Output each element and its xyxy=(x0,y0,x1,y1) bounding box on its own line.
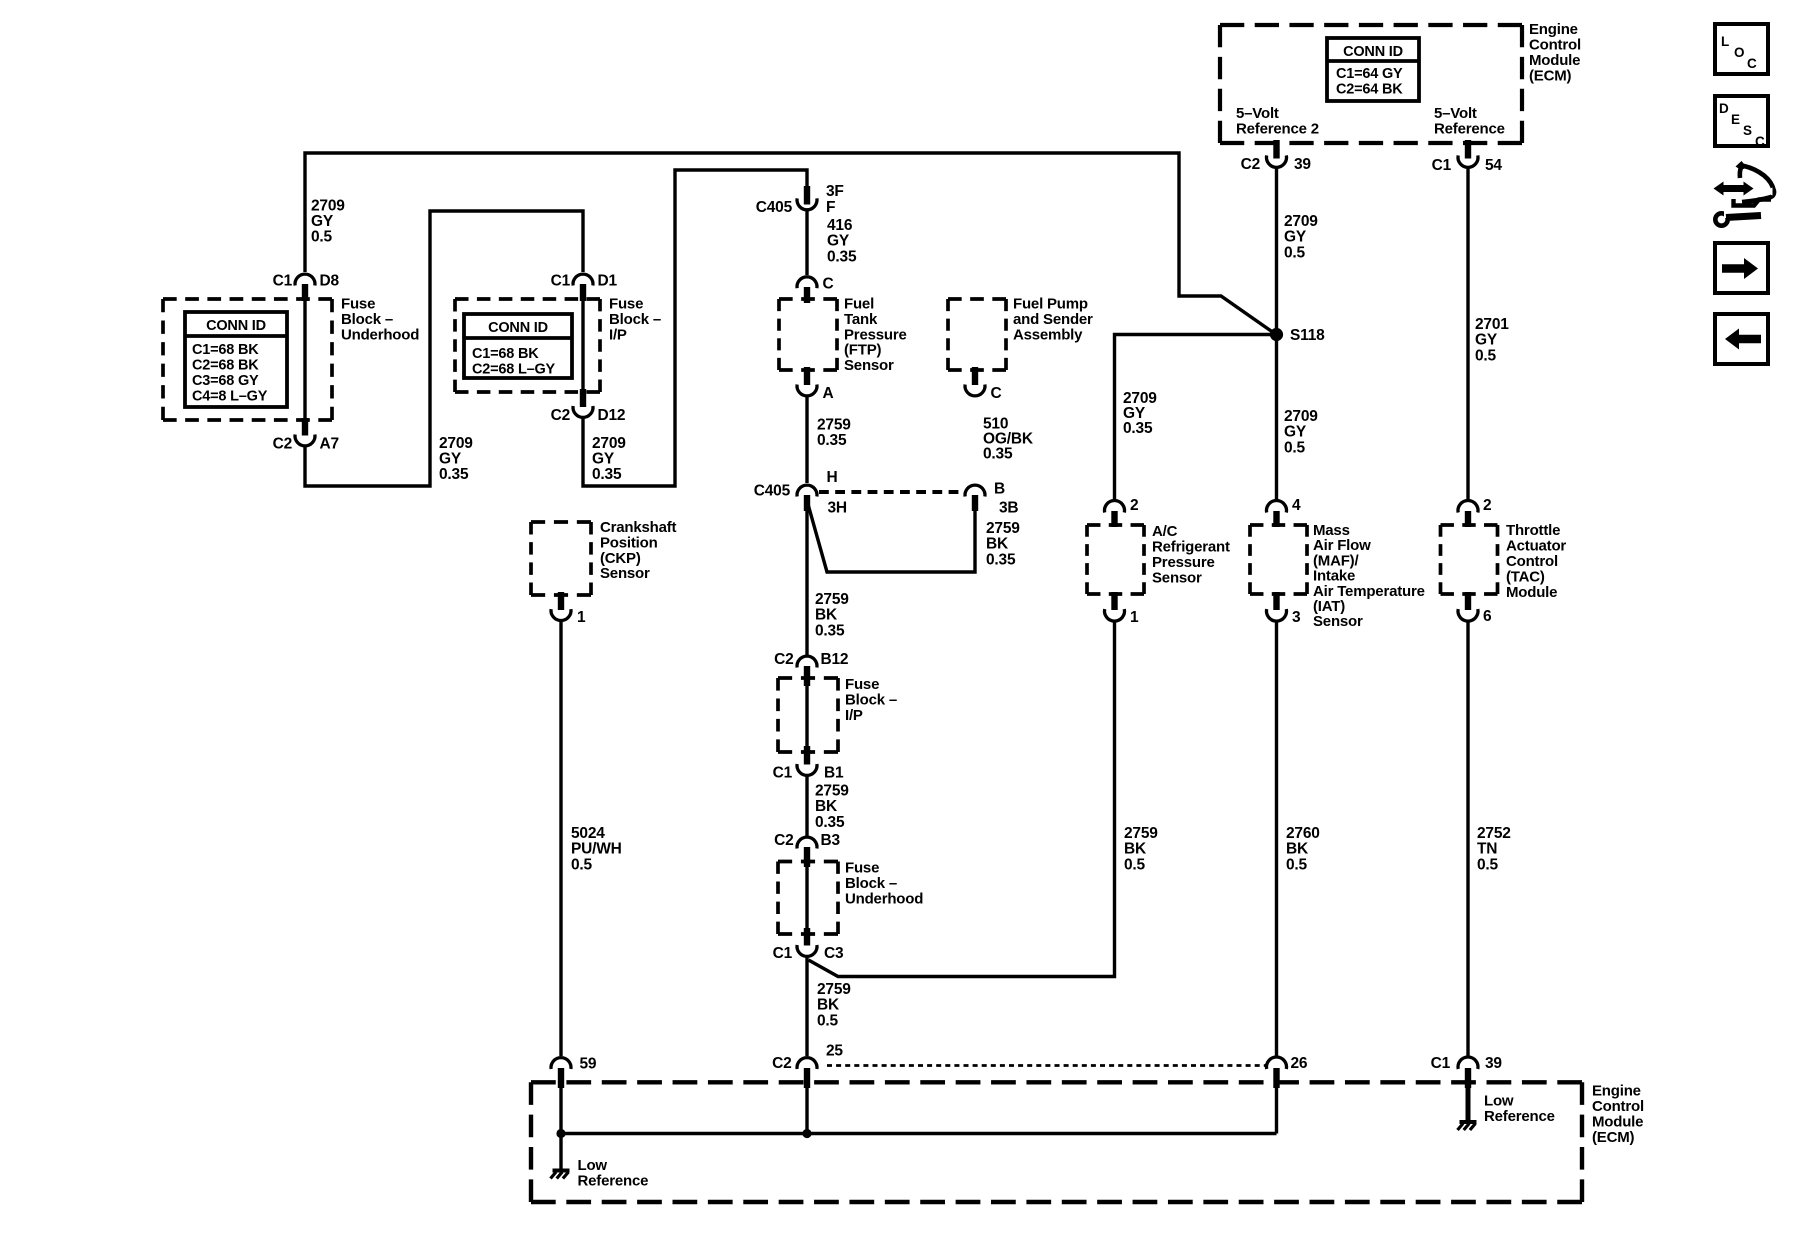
svg-text:C1: C1 xyxy=(773,945,793,962)
svg-text:5024: 5024 xyxy=(571,825,605,842)
svg-text:GY: GY xyxy=(827,233,850,250)
wire H down to B12 xyxy=(805,510,808,655)
svg-text:Control: Control xyxy=(1506,553,1558,570)
connector B (fuel pump) xyxy=(965,481,1018,517)
svg-text:0.5: 0.5 xyxy=(817,1012,839,1029)
svg-text:Underhood: Underhood xyxy=(341,326,419,343)
label Engine Control Module (ECM) top xyxy=(1529,21,1581,85)
svg-text:0.5: 0.5 xyxy=(1124,856,1146,873)
svg-text:Reference 2: Reference 2 xyxy=(1236,121,1319,138)
svg-text:I/P: I/P xyxy=(609,326,627,343)
svg-text:BK: BK xyxy=(986,536,1009,553)
svg-text:4: 4 xyxy=(1292,497,1301,514)
svg-text:Block –: Block – xyxy=(845,692,897,709)
svg-text:0.35: 0.35 xyxy=(439,466,469,483)
wire label 2709 GY 0.5 (S118 lower) xyxy=(1284,408,1318,456)
svg-text:C4=8 L–GY: C4=8 L–GY xyxy=(192,389,268,405)
svg-text:2759: 2759 xyxy=(815,591,849,608)
connector C (fuel pump) xyxy=(965,367,1002,402)
svg-text:Engine: Engine xyxy=(1592,1083,1641,1100)
svg-text:GY: GY xyxy=(1284,424,1307,441)
svg-text:5–Volt: 5–Volt xyxy=(1236,105,1279,122)
inline connector C405 terminal F xyxy=(756,183,844,216)
svg-text:3: 3 xyxy=(1292,609,1301,626)
wire pin 26 into ECM xyxy=(1275,1087,1278,1134)
svg-text:0.5: 0.5 xyxy=(1477,856,1499,873)
wire label 2759 BK 0.5 xyxy=(817,981,851,1029)
svg-text:BK: BK xyxy=(817,997,840,1014)
svg-text:0.5: 0.5 xyxy=(571,856,593,873)
label Fuse Block Underhood (middle) xyxy=(845,860,923,908)
connector C2 B3 xyxy=(774,832,840,867)
svg-text:26: 26 xyxy=(1291,1055,1308,1072)
svg-text:0.35: 0.35 xyxy=(983,446,1013,463)
svg-text:E: E xyxy=(1731,112,1740,127)
label Low Reference (right) xyxy=(1484,1092,1555,1125)
svg-text:Fuse: Fuse xyxy=(845,676,879,693)
svg-text:C2: C2 xyxy=(273,436,292,453)
svg-text:C1: C1 xyxy=(773,765,793,782)
svg-text:3B: 3B xyxy=(999,500,1018,517)
label Fuel Tank Pressure (FTP) Sensor xyxy=(844,296,907,375)
svg-text:Module: Module xyxy=(1592,1114,1643,1131)
svg-text:C: C xyxy=(1747,56,1757,71)
svg-text:Throttle: Throttle xyxy=(1506,522,1560,539)
wire C2-39 to S118 xyxy=(1275,168,1278,335)
svg-text:2: 2 xyxy=(1483,497,1491,514)
svg-text:B12: B12 xyxy=(821,651,849,668)
svg-text:0.5: 0.5 xyxy=(1286,856,1308,873)
wire label 510 OG/BK 0.35 xyxy=(983,416,1034,463)
svg-text:Module: Module xyxy=(1506,584,1557,601)
svg-text:54: 54 xyxy=(1485,157,1502,174)
svg-text:C3: C3 xyxy=(824,945,844,962)
svg-text:BK: BK xyxy=(1124,841,1147,858)
label 5-Volt Reference 2 xyxy=(1236,105,1319,138)
svg-text:Low: Low xyxy=(578,1157,608,1174)
svg-text:A: A xyxy=(823,385,834,402)
svg-text:C405: C405 xyxy=(756,199,793,216)
svg-text:D1: D1 xyxy=(598,273,618,290)
wire pin 39 to ground (right) xyxy=(1466,1068,1471,1120)
jump/wrench icon xyxy=(1714,161,1775,226)
svg-text:BK: BK xyxy=(815,607,838,624)
label Fuse Block I/P (left) xyxy=(609,296,661,344)
connector C (FTP sensor) xyxy=(797,276,834,304)
svg-text:2759: 2759 xyxy=(817,417,851,434)
svg-text:GY: GY xyxy=(439,451,462,468)
svg-text:(ECM): (ECM) xyxy=(1529,68,1572,85)
svg-text:BK: BK xyxy=(815,798,838,815)
svg-text:0.35: 0.35 xyxy=(815,814,845,831)
svg-text:B: B xyxy=(994,481,1005,498)
svg-text:C1=64 GY: C1=64 GY xyxy=(1336,66,1403,82)
ECM CONN ID table xyxy=(1327,38,1419,101)
wire label 416 GY 0.35 xyxy=(827,217,857,265)
svg-text:C1: C1 xyxy=(1432,157,1452,174)
svg-text:Actuator: Actuator xyxy=(1506,538,1566,555)
svg-text:1: 1 xyxy=(577,609,586,626)
wire A7 to D1 xyxy=(305,211,583,486)
svg-text:D8: D8 xyxy=(320,273,340,290)
label Fuse Block I/P (middle) xyxy=(845,676,897,724)
svg-text:(ECM): (ECM) xyxy=(1592,1129,1635,1146)
svg-text:F: F xyxy=(826,199,835,216)
label 5-Volt Reference xyxy=(1434,105,1505,138)
svg-text:S: S xyxy=(1743,123,1752,138)
wire label 2759 BK 0.35 (H-B12) xyxy=(815,591,849,639)
svg-text:25: 25 xyxy=(826,1042,843,1059)
wire label 2760 BK 0.5 xyxy=(1286,825,1320,873)
wire label 2709 GY 0.35 (A/C feed) xyxy=(1123,390,1157,437)
svg-text:A7: A7 xyxy=(320,436,339,453)
svg-text:0.35: 0.35 xyxy=(592,466,622,483)
a/c refrigerant pressure sensor box xyxy=(1087,525,1144,594)
svg-text:Pressure: Pressure xyxy=(1152,554,1215,571)
svg-text:0.5: 0.5 xyxy=(1284,439,1306,456)
label Engine Control Module (ECM) bottom xyxy=(1592,1083,1644,1147)
svg-text:3H: 3H xyxy=(828,500,847,517)
svg-text:Reference: Reference xyxy=(1484,1108,1555,1125)
svg-text:2752: 2752 xyxy=(1477,825,1511,842)
svg-text:C2=68 L–GY: C2=68 L–GY xyxy=(472,362,556,378)
wire label 2709 GY 0.35 (D12) xyxy=(592,435,626,483)
wire TAC to pin 39 xyxy=(1466,621,1469,1056)
svg-text:Reference: Reference xyxy=(578,1173,649,1190)
svg-text:39: 39 xyxy=(1485,1055,1502,1072)
wire D12 to C405 F xyxy=(583,170,807,486)
connector pin 26 (ECM) xyxy=(1267,1055,1308,1088)
svg-text:C1: C1 xyxy=(273,273,293,290)
label Mass Air Flow (MAF)/IAT Sensor xyxy=(1313,522,1425,630)
svg-text:Underhood: Underhood xyxy=(845,891,923,908)
svg-text:Module: Module xyxy=(1529,52,1580,69)
connector C1 B1 xyxy=(773,746,844,782)
svg-text:B3: B3 xyxy=(821,832,841,849)
wire inside I/P block xyxy=(805,685,808,747)
svg-text:Sensor: Sensor xyxy=(1313,613,1363,630)
DESC icon box xyxy=(1715,96,1768,149)
engine control module (ECM) bottom box xyxy=(531,1082,1582,1202)
connector pin 6 (TAC) xyxy=(1458,592,1492,625)
connector C2 D12 xyxy=(551,389,626,424)
svg-text:O: O xyxy=(1734,45,1744,60)
svg-text:2701: 2701 xyxy=(1475,316,1509,333)
wire label 5024 PU/WH 0.5 xyxy=(571,825,622,873)
svg-text:Assembly: Assembly xyxy=(1013,326,1083,343)
connector C1 C3 xyxy=(773,928,844,962)
wire label 2701 GY 0.5 xyxy=(1475,316,1509,364)
svg-text:CONN ID: CONN ID xyxy=(488,320,548,336)
svg-text:39: 39 xyxy=(1294,156,1311,173)
svg-text:GY: GY xyxy=(592,451,615,468)
inline connector C405 terminal H xyxy=(754,469,847,517)
svg-text:S118: S118 xyxy=(1290,327,1325,344)
svg-text:C2: C2 xyxy=(774,832,793,849)
ground symbol (left) xyxy=(551,1171,570,1179)
svg-text:2709: 2709 xyxy=(1284,213,1318,230)
svg-text:I/P: I/P xyxy=(845,707,863,724)
svg-text:0.35: 0.35 xyxy=(817,432,847,449)
svg-text:C1=68 BK: C1=68 BK xyxy=(192,342,259,358)
svg-text:A/C: A/C xyxy=(1152,523,1178,540)
svg-text:0.5: 0.5 xyxy=(311,229,333,246)
wire C3 down to pin 25 xyxy=(805,957,808,1056)
junction dot at pin 25 leg xyxy=(802,1129,811,1138)
svg-text:H: H xyxy=(827,469,838,486)
crankshaft position (CKP) sensor box xyxy=(531,522,591,595)
label Low Reference (left) xyxy=(578,1157,649,1190)
wire MAF to pin 26 xyxy=(1275,621,1278,1056)
svg-text:Low: Low xyxy=(1484,1092,1514,1109)
svg-text:2759: 2759 xyxy=(1124,825,1158,842)
svg-text:2759: 2759 xyxy=(817,981,851,998)
svg-text:Refrigerant: Refrigerant xyxy=(1152,539,1230,556)
svg-text:Block –: Block – xyxy=(845,875,897,892)
engine control module (ECM) top box xyxy=(1220,25,1522,143)
svg-text:GY: GY xyxy=(1284,229,1307,246)
connector C2 B12 xyxy=(774,651,848,686)
connector pin 3 (MAF) xyxy=(1267,592,1302,626)
connector pin 1 (A/C sensor) xyxy=(1105,592,1140,626)
svg-text:2709: 2709 xyxy=(311,198,345,215)
C405 connector body dashed line xyxy=(819,490,961,494)
svg-text:Control: Control xyxy=(1592,1098,1644,1115)
svg-text:5–Volt: 5–Volt xyxy=(1434,105,1477,122)
svg-text:Control: Control xyxy=(1529,37,1581,54)
wire label 2709 GY 0.35 (A7-D1) xyxy=(439,435,473,483)
throttle actuator control (TAC) module box xyxy=(1441,525,1498,594)
svg-text:C2=68 BK: C2=68 BK xyxy=(192,358,259,374)
fuse block I/P CONN ID table xyxy=(464,314,572,378)
connector C1 pin 54 (ECM top) xyxy=(1432,140,1503,174)
svg-text:0.35: 0.35 xyxy=(827,248,857,265)
svg-text:L: L xyxy=(1721,34,1729,49)
svg-text:2759: 2759 xyxy=(815,783,849,800)
mass air flow (MAF/IAT) sensor box xyxy=(1250,525,1307,594)
svg-text:B1: B1 xyxy=(824,765,844,782)
wire label 2759 BK 0.35 (B1-B3) xyxy=(815,783,849,831)
svg-text:TN: TN xyxy=(1477,841,1497,858)
fuse block I/P box xyxy=(455,299,600,392)
connector pin 59 (ECM) xyxy=(551,1056,597,1089)
fuse block underhood CONN ID table xyxy=(185,312,287,407)
connector C2 A7 xyxy=(273,418,339,453)
label A/C Refrigerant Pressure Sensor xyxy=(1152,523,1230,587)
svg-text:C405: C405 xyxy=(754,483,791,500)
svg-text:2: 2 xyxy=(1130,497,1138,514)
forward arrow icon box xyxy=(1715,243,1768,293)
label Fuel Pump and Sender Assembly xyxy=(1013,296,1093,344)
connector pin 2 (TAC) xyxy=(1458,497,1491,527)
svg-text:C: C xyxy=(1755,134,1765,149)
wire label 2709 GY 0.5 (left) xyxy=(311,198,345,246)
svg-text:6: 6 xyxy=(1483,608,1492,625)
svg-text:Fuse: Fuse xyxy=(845,860,879,877)
wire 2709 GY top bus xyxy=(305,153,1274,333)
wire C1-54 to TAC xyxy=(1466,168,1469,500)
svg-text:C3=68 GY: C3=68 GY xyxy=(192,373,259,389)
svg-text:Reference: Reference xyxy=(1434,121,1505,138)
svg-text:C1: C1 xyxy=(1431,1055,1451,1072)
svg-text:0.5: 0.5 xyxy=(1475,347,1497,364)
splice S118 xyxy=(1270,327,1325,344)
svg-text:0.35: 0.35 xyxy=(815,622,845,639)
wire F to C xyxy=(805,211,808,276)
svg-text:GY: GY xyxy=(1475,332,1498,349)
label Throttle Actuator Control (TAC) Module xyxy=(1506,522,1566,601)
svg-text:Sensor: Sensor xyxy=(844,357,894,374)
wire label 2752 TN 0.5 xyxy=(1477,825,1511,873)
ground symbol (right) xyxy=(1458,1122,1477,1130)
wire S118 to A/C sensor xyxy=(1115,335,1273,500)
connector pin 2 (A/C sensor) xyxy=(1105,497,1139,527)
wire A to C405 H xyxy=(805,397,808,484)
connector C2 pin 25 (ECM) xyxy=(772,1042,843,1088)
connector C1 D8 xyxy=(273,273,340,302)
fuse block underhood box (middle) xyxy=(778,862,838,935)
svg-text:D: D xyxy=(1719,101,1729,116)
connector pin 1 (CKP) xyxy=(551,592,586,626)
svg-text:BK: BK xyxy=(1286,841,1309,858)
svg-text:C2: C2 xyxy=(551,407,570,424)
svg-text:D12: D12 xyxy=(598,407,626,424)
svg-text:GY: GY xyxy=(311,213,334,230)
svg-text:1: 1 xyxy=(1130,609,1139,626)
wire label 2759 0.35 xyxy=(817,417,851,450)
svg-text:2709: 2709 xyxy=(439,435,473,452)
svg-text:416: 416 xyxy=(827,217,853,234)
svg-text:2760: 2760 xyxy=(1286,825,1320,842)
svg-text:0.35: 0.35 xyxy=(1123,420,1153,437)
wire B1 to B3 xyxy=(805,776,808,836)
back arrow icon box xyxy=(1715,314,1768,364)
low reference bus inside ECM xyxy=(561,1132,1277,1135)
svg-text:C1: C1 xyxy=(551,273,571,290)
svg-text:C1=68 BK: C1=68 BK xyxy=(472,346,539,362)
ECM C2 connector dotted line 25-26 xyxy=(827,1064,1266,1067)
connector C1 pin 39 (ECM bottom) xyxy=(1431,1055,1503,1088)
svg-text:2759: 2759 xyxy=(986,520,1020,537)
label Fuse Block Underhood (left) xyxy=(341,296,419,344)
connector A (FTP sensor) xyxy=(797,367,834,402)
fuel tank pressure (FTP) sensor box xyxy=(779,299,837,370)
svg-text:C2=64 BK: C2=64 BK xyxy=(1336,82,1403,98)
wire to ground (left) xyxy=(559,1134,562,1170)
wire A/C pin1 to C3 xyxy=(809,621,1115,977)
svg-text:C2: C2 xyxy=(774,651,793,668)
svg-text:CONN ID: CONN ID xyxy=(206,318,266,334)
wire inside underhood block xyxy=(805,866,808,930)
fuel pump and sender assembly box xyxy=(948,299,1006,370)
svg-text:C2: C2 xyxy=(1241,156,1260,173)
svg-text:59: 59 xyxy=(580,1056,597,1073)
svg-text:C: C xyxy=(991,385,1002,402)
svg-text:0.35: 0.35 xyxy=(986,551,1016,568)
wire label 2759 BK 0.5 (A/C) xyxy=(1124,825,1158,873)
svg-text:2709: 2709 xyxy=(1284,408,1318,425)
svg-text:2709: 2709 xyxy=(592,435,626,452)
svg-text:(TAC): (TAC) xyxy=(1506,569,1545,586)
connector C2 pin 39 (ECM top) xyxy=(1241,140,1312,173)
svg-text:PU/WH: PU/WH xyxy=(571,841,622,858)
svg-text:Sensor: Sensor xyxy=(600,565,650,582)
wire CKP to pin 59 xyxy=(559,621,562,1056)
connector C1 D1 xyxy=(551,273,618,302)
svg-text:3F: 3F xyxy=(826,183,844,200)
wire inside fuse block D1-D12 xyxy=(581,300,584,392)
wire S118 down to MAF xyxy=(1275,335,1278,500)
fuse block I/P box (middle) xyxy=(778,678,838,752)
wire inside fuse block D8-A7 xyxy=(303,300,306,421)
svg-text:Sensor: Sensor xyxy=(1152,570,1202,587)
wire pin 59 into ECM xyxy=(559,1087,562,1134)
svg-text:C: C xyxy=(823,276,834,293)
wire B to H xyxy=(809,506,976,572)
label Crankshaft Position (CKP) Sensor xyxy=(600,519,677,582)
svg-text:0.5: 0.5 xyxy=(1284,244,1306,261)
wire pin 25 into ECM xyxy=(805,1087,808,1134)
svg-text:Engine: Engine xyxy=(1529,21,1578,38)
wire label 2709 GY 0.5 (S118 upper) xyxy=(1284,213,1318,261)
fuse block underhood box xyxy=(163,299,332,420)
LOC icon box xyxy=(1715,24,1768,74)
svg-text:C2: C2 xyxy=(772,1055,791,1072)
svg-text:CONN ID: CONN ID xyxy=(1343,44,1403,60)
junction dot at pin 59 leg xyxy=(556,1129,565,1138)
wire label 2759 BK 0.35 (B) xyxy=(986,520,1020,568)
connector pin 4 (MAF) xyxy=(1267,497,1302,527)
